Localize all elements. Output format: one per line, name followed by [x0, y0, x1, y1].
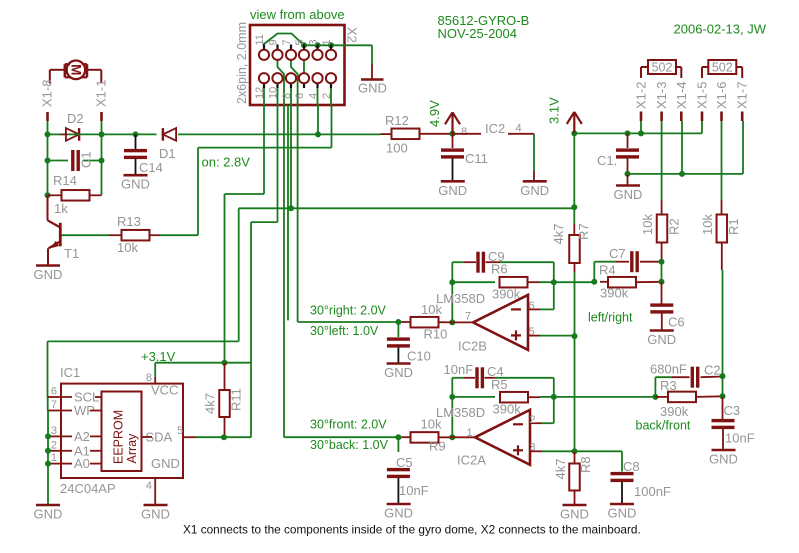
svg-text:X1-3: X1-3 [654, 82, 669, 109]
svg-text:7: 7 [465, 311, 471, 323]
svg-text:GND: GND [560, 507, 589, 522]
svg-text:GND: GND [121, 177, 150, 192]
svg-text:M: M [69, 64, 84, 75]
svg-text:GND: GND [614, 187, 643, 202]
svg-text:C6: C6 [668, 315, 685, 330]
svg-text:GND: GND [520, 183, 549, 198]
svg-text:4: 4 [146, 480, 152, 492]
svg-text:8: 8 [281, 93, 293, 99]
svg-text:X1 connects to the components: X1 connects to the components inside of … [183, 523, 641, 537]
svg-text:C1.: C1. [597, 153, 617, 168]
svg-text:D2: D2 [67, 111, 84, 126]
svg-text:C8: C8 [623, 459, 640, 474]
svg-text:R5: R5 [491, 377, 508, 392]
svg-text:R2: R2 [667, 218, 682, 235]
svg-text:GND: GND [34, 507, 63, 522]
svg-text:390k: 390k [493, 402, 522, 417]
svg-text:X1-4: X1-4 [674, 82, 689, 109]
svg-text:680nF: 680nF [650, 362, 687, 377]
svg-text:GND: GND [608, 506, 637, 521]
svg-text:Array: Array [125, 433, 139, 464]
svg-text:GND: GND [34, 267, 63, 282]
svg-text:+3.1V: +3.1V [141, 349, 176, 364]
svg-text:1k: 1k [54, 201, 68, 216]
svg-text:R13: R13 [117, 214, 141, 229]
svg-text:NOV-25-2004: NOV-25-2004 [438, 26, 518, 41]
svg-text:X1-8: X1-8 [40, 80, 55, 107]
svg-text:R11: R11 [229, 388, 244, 411]
svg-text:4k7: 4k7 [203, 393, 218, 414]
svg-text:10k: 10k [421, 417, 442, 432]
svg-text:IC1: IC1 [60, 365, 80, 380]
svg-text:GND: GND [438, 183, 467, 198]
svg-text:502: 502 [652, 61, 673, 75]
svg-text:4: 4 [516, 123, 522, 135]
svg-text:8: 8 [146, 372, 152, 384]
svg-text:R1: R1 [726, 218, 741, 235]
svg-text:C14: C14 [139, 160, 163, 175]
svg-text:C1: C1 [79, 151, 94, 168]
svg-text:6: 6 [529, 300, 535, 312]
svg-text:2: 2 [51, 439, 57, 451]
svg-text:R4: R4 [599, 263, 616, 278]
svg-text:C10: C10 [407, 349, 431, 364]
svg-text:EEPROM: EEPROM [112, 410, 126, 464]
svg-text:R9: R9 [429, 439, 446, 454]
svg-text:X1-7: X1-7 [735, 82, 750, 109]
svg-text:view from above: view from above [250, 7, 345, 22]
svg-text:390k: 390k [600, 286, 629, 301]
svg-text:5: 5 [529, 326, 535, 338]
svg-text:GND: GND [384, 506, 413, 521]
svg-text:2006-02-13, JW: 2006-02-13, JW [674, 22, 767, 37]
svg-text:LM358D: LM358D [436, 405, 485, 420]
svg-text:on: 2.8V: on: 2.8V [202, 155, 251, 170]
svg-text:1: 1 [51, 452, 57, 464]
svg-text:10nF: 10nF [399, 483, 429, 498]
svg-text:30°right: 2.0V: 30°right: 2.0V [310, 304, 387, 318]
svg-text:X1-2: X1-2 [634, 82, 649, 109]
svg-text:10k: 10k [640, 214, 655, 235]
svg-text:GND: GND [384, 365, 413, 380]
svg-text:X1-1: X1-1 [94, 80, 109, 107]
svg-text:A2: A2 [74, 429, 90, 444]
svg-text:502: 502 [712, 61, 733, 75]
svg-text:X1-5: X1-5 [695, 82, 710, 109]
svg-text:GND: GND [358, 81, 387, 96]
svg-text:D1: D1 [159, 146, 176, 161]
svg-text:A0: A0 [74, 456, 90, 471]
svg-text:R14: R14 [53, 173, 77, 188]
svg-text:100nF: 100nF [634, 484, 671, 499]
svg-text:4k7: 4k7 [551, 224, 566, 245]
svg-text:5: 5 [177, 425, 183, 437]
svg-text:4k7: 4k7 [553, 459, 568, 480]
svg-text:R10: R10 [424, 327, 448, 342]
svg-text:VCC: VCC [151, 383, 178, 398]
svg-text:3: 3 [530, 442, 536, 454]
svg-text:C3: C3 [724, 403, 741, 418]
svg-text:T1: T1 [64, 246, 79, 261]
svg-text:30°front: 2.0V: 30°front: 2.0V [310, 418, 387, 432]
svg-text:10k: 10k [421, 302, 442, 317]
svg-text:2: 2 [530, 414, 536, 426]
svg-text:390k: 390k [492, 287, 521, 302]
svg-text:R12: R12 [385, 113, 409, 128]
svg-text:30°back: 1.0V: 30°back: 1.0V [310, 438, 389, 452]
svg-text:4: 4 [308, 93, 320, 99]
svg-text:7: 7 [281, 39, 293, 45]
svg-text:IC2A: IC2A [457, 453, 486, 468]
svg-text:11: 11 [254, 34, 266, 45]
svg-text:3: 3 [308, 39, 320, 45]
svg-text:GND: GND [151, 456, 180, 471]
svg-text:C7: C7 [609, 246, 626, 261]
svg-text:7: 7 [51, 399, 57, 411]
svg-text:2x6pin, 2.0mm: 2x6pin, 2.0mm [235, 22, 249, 104]
svg-text:12: 12 [254, 87, 266, 99]
svg-text:C11: C11 [465, 151, 488, 166]
svg-text:24C04AP: 24C04AP [60, 481, 116, 496]
svg-text:GND: GND [141, 507, 170, 522]
svg-text:C2: C2 [704, 363, 721, 378]
svg-text:10: 10 [268, 87, 280, 99]
svg-text:1: 1 [321, 39, 333, 45]
svg-text:X2: X2 [345, 27, 360, 43]
svg-text:390k: 390k [660, 404, 689, 419]
svg-text:1: 1 [467, 427, 473, 439]
svg-text:IC2: IC2 [485, 121, 505, 136]
svg-text:5: 5 [294, 39, 306, 45]
svg-text:3.1V: 3.1V [547, 97, 562, 124]
svg-text:left/right: left/right [588, 311, 633, 325]
svg-text:R8: R8 [578, 456, 593, 473]
svg-text:R6: R6 [491, 262, 508, 277]
svg-text:6: 6 [51, 386, 57, 398]
svg-text:C5: C5 [396, 455, 413, 470]
svg-text:LM358D: LM358D [436, 291, 485, 306]
svg-text:4.9V: 4.9V [427, 100, 442, 127]
svg-text:R7: R7 [576, 223, 591, 240]
svg-text:10k: 10k [700, 214, 715, 235]
svg-text:10nF: 10nF [444, 362, 474, 377]
svg-text:IC2B: IC2B [458, 339, 487, 354]
svg-text:X1-6: X1-6 [714, 82, 729, 109]
svg-text:9: 9 [268, 39, 280, 45]
svg-text:3: 3 [51, 425, 57, 437]
svg-text:2: 2 [321, 93, 333, 99]
svg-text:back/front: back/front [636, 419, 691, 433]
svg-text:8: 8 [461, 126, 467, 138]
svg-text:R3: R3 [660, 378, 677, 393]
svg-text:100: 100 [386, 141, 408, 156]
svg-text:GND: GND [709, 452, 738, 467]
svg-text:30°left: 1.0V: 30°left: 1.0V [310, 324, 379, 338]
svg-text:6: 6 [294, 93, 306, 99]
svg-text:10nF: 10nF [725, 431, 755, 446]
svg-text:GND: GND [647, 332, 676, 347]
svg-text:10k: 10k [117, 240, 138, 255]
